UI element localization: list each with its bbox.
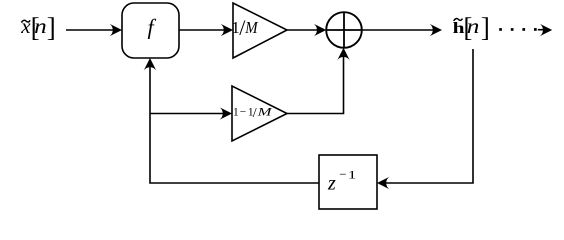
- svg-text:z: z: [327, 173, 336, 195]
- svg-text:]: ]: [47, 12, 56, 42]
- svg-text:−: −: [240, 106, 246, 118]
- svg-text:M: M: [256, 106, 274, 118]
- svg-text:−: −: [339, 167, 346, 182]
- svg-text:]: ]: [481, 12, 490, 42]
- svg-text:1: 1: [348, 169, 357, 182]
- svg-text:/: /: [253, 106, 257, 121]
- svg-text:1: 1: [233, 106, 239, 118]
- svg-text:n: n: [34, 14, 47, 38]
- svg-text:n: n: [467, 14, 480, 38]
- svg-text:M: M: [244, 18, 258, 37]
